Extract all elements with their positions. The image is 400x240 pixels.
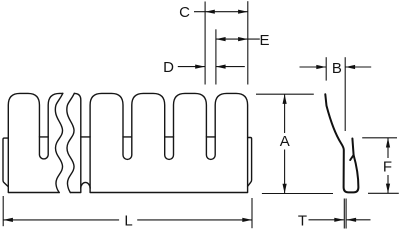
arrowhead F bottom [386, 184, 390, 194]
F top extension line [362, 137, 397, 139]
svg-text:L: L [124, 213, 132, 230]
B extension line left [325, 57, 327, 80]
dimension A line lower [284, 150, 286, 194]
A bottom extension line [262, 193, 333, 195]
dimension A line upper [284, 94, 286, 133]
left mounting tab [3, 138, 8, 187]
arrowhead C left [205, 10, 215, 14]
arrowhead L left [3, 218, 13, 222]
arrowhead A top [283, 94, 287, 104]
svg-text:B: B [332, 60, 342, 77]
L extension line right [251, 198, 253, 228]
arrowhead A bottom [283, 184, 287, 194]
A top extension line [256, 93, 314, 95]
tick across slot 5 [206, 136, 215, 138]
dimension E line [216, 38, 260, 40]
arrowhead D left [195, 65, 205, 69]
break wavy line 2 [67, 93, 74, 192]
svg-text:D: D [163, 59, 174, 76]
arrowhead E right [238, 37, 248, 41]
tick across slot 2 [81, 136, 90, 138]
dimension F line upper [387, 138, 389, 158]
arrowhead T left [334, 218, 344, 222]
break wavy line 1 [55, 93, 62, 192]
arrowhead B right [345, 65, 355, 69]
arrowhead C right [238, 10, 248, 14]
arrowhead B left [316, 65, 326, 69]
dimension C line [194, 11, 248, 13]
svg-text:F: F [383, 159, 392, 176]
svg-text:C: C [179, 4, 190, 21]
front view main body outline (right piece, fingers 3-6) [90, 93, 248, 192]
dimension B leader left [300, 66, 327, 68]
extension line middle (slot 5 right edge) [215, 29, 217, 84]
F bottom extension line [368, 192, 399, 194]
arrowhead F top [386, 138, 390, 148]
T extension line left [343, 199, 345, 229]
svg-text:A: A [280, 133, 290, 150]
arrowhead E left [216, 37, 226, 41]
dimension F line lower [387, 175, 389, 193]
right mounting tab [248, 138, 252, 187]
extension line left (slot 5 left edge) [204, 2, 206, 85]
dimension L line left segment [3, 219, 119, 221]
L extension line left [2, 196, 4, 226]
tick across slot 1 [39, 136, 48, 138]
dimension L line right segment [137, 219, 252, 221]
front view body left piece outline [8, 93, 63, 192]
dimension D leader left [178, 66, 205, 68]
tick across slot 3 [123, 136, 132, 138]
extension line right (body right edge) [247, 1, 249, 84]
B extension line right [344, 57, 346, 131]
anti-tear arch at bottom of broken slot [81, 182, 90, 188]
T extension line right [345, 199, 347, 229]
side view spring arm and base [325, 94, 358, 192]
front view partial finger cap (right of break) [70, 93, 81, 192]
svg-text:E: E [259, 32, 269, 49]
arrowhead D right [216, 65, 226, 69]
arrowhead T right [346, 218, 356, 222]
dimension B leader right [345, 66, 371, 68]
side view retention barb [350, 155, 353, 160]
dimension D leader right [216, 66, 245, 68]
dimension T leader left [309, 219, 344, 221]
arrowhead L right [242, 218, 252, 222]
svg-text:T: T [298, 213, 307, 230]
dimension T leader right [347, 219, 371, 221]
tick across slot 4 [165, 136, 174, 138]
